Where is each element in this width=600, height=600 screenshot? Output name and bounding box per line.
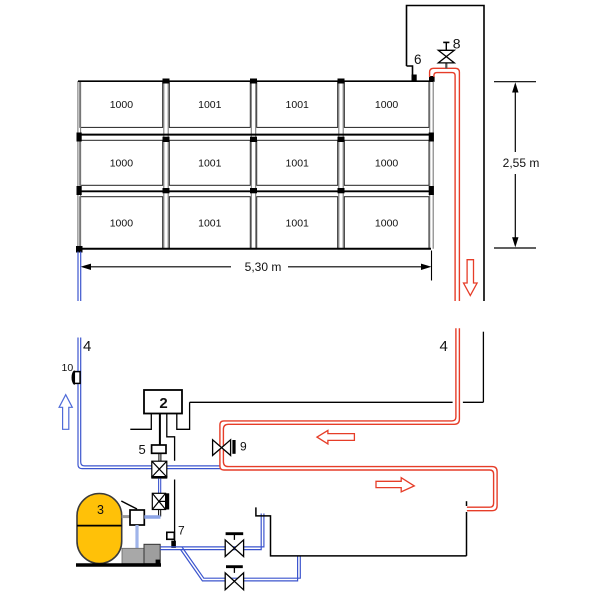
svg-text:5,30 m: 5,30 m: [245, 260, 282, 274]
controller wiring to sensor 7: [167, 414, 175, 542]
junction blocks (black squares) top edge: [163, 76, 435, 84]
balancing valve 9: [213, 440, 236, 456]
svg-text:5: 5: [139, 442, 146, 457]
flow arrow right (red outline): [376, 478, 414, 492]
stem to 3-way valve (blue): [159, 479, 161, 494]
panel labels row 1: [110, 99, 399, 111]
svg-text:9: 9: [240, 440, 247, 454]
flow arrow down (red outline): [464, 260, 478, 296]
svg-text:1001: 1001: [198, 99, 222, 111]
base plate: [76, 563, 161, 566]
vertical manifold connector pipes (gray): [78, 81, 433, 249]
panel labels row 2: [110, 157, 399, 169]
sensor pocket 6 (black nub): [412, 75, 417, 82]
array bottom edge: [78, 248, 431, 250]
sensor 7 black nub: [171, 541, 176, 548]
enclosure wall outline: [407, 6, 485, 302]
junction blocks rail band 2: [77, 186, 434, 195]
svg-text:2: 2: [159, 395, 167, 412]
mounting rail band 1: [78, 134, 433, 136]
light blue link valve to fitting box: [144, 515, 160, 519]
svg-text:4: 4: [83, 338, 91, 355]
svg-text:10: 10: [62, 362, 74, 374]
svg-text:1001: 1001: [286, 157, 310, 169]
mounting rail band 2: [78, 190, 433, 192]
pool suction pipe lower branch (blue): [181, 547, 301, 581]
stem below 3-way valve: [159, 510, 161, 517]
cold return pipe upper stub (blue): [78, 252, 81, 302]
svg-text:8: 8: [453, 36, 461, 52]
svg-text:6: 6: [414, 52, 422, 67]
svg-text:1000: 1000: [110, 217, 134, 229]
svg-text:3: 3: [97, 503, 104, 517]
svg-text:1000: 1000: [375, 217, 399, 229]
svg-text:2,55 m: 2,55 m: [503, 156, 540, 170]
flow arrow up (blue outline): [59, 395, 72, 430]
3-way mixing valve with actuator: [152, 493, 169, 509]
air vent valve 8: [438, 42, 454, 68]
pool basin outline: [256, 501, 467, 556]
svg-text:1000: 1000: [110, 99, 134, 111]
collector panels grid: [80, 81, 429, 249]
controller stem to pump group: [159, 414, 161, 446]
hot supply pipe (red) from collector top to down-right: [430, 68, 460, 301]
dimension 2,55 m: [494, 82, 536, 248]
shutoff valve A (upper branch): [225, 534, 243, 557]
pump unit: [122, 544, 160, 564]
svg-text:1001: 1001: [286, 99, 310, 111]
stem 5 to valve: [159, 453, 161, 461]
diagonal sensor line to tank: [121, 501, 137, 509]
panel labels row 3: [110, 217, 399, 229]
cold return riser (blue) left: [78, 338, 221, 469]
svg-text:1000: 1000: [375, 157, 399, 169]
light blue drop from fitting box to pump: [135, 525, 138, 548]
svg-text:1001: 1001: [286, 217, 310, 229]
svg-text:1000: 1000: [375, 99, 399, 111]
sensor 7 box: [167, 532, 175, 539]
shutoff valve below 5: [151, 461, 167, 477]
controller wiring left hook: [130, 414, 151, 430]
air vent 10: [72, 371, 80, 384]
svg-text:7: 7: [178, 524, 185, 538]
tank connector (gray): [122, 515, 130, 518]
fitting box by tank: [130, 510, 144, 525]
sensor cable to collector (long horizontal): [190, 332, 484, 403]
array top edge: [78, 80, 433, 82]
controller wiring right hook: [177, 402, 190, 429]
svg-text:1000: 1000: [110, 157, 134, 169]
svg-text:1001: 1001: [198, 157, 222, 169]
shutoff valve B (lower branch): [225, 567, 243, 590]
expansion tank 3: [77, 494, 122, 564]
pool suction pipe upper branch (blue): [160, 514, 264, 550]
hot supply pipe lower circuit (red): [220, 328, 497, 510]
flow arrow left (red outline): [317, 430, 354, 444]
svg-text:1001: 1001: [198, 217, 222, 229]
junction blocks rail band 1: [77, 133, 434, 143]
dimension 5,30 m: [81, 251, 432, 281]
junction block bottom-left corner: [76, 246, 83, 253]
component 5 (pump group fitting): [152, 445, 166, 453]
svg-text:4: 4: [440, 338, 448, 355]
controller box 2: [144, 390, 182, 414]
